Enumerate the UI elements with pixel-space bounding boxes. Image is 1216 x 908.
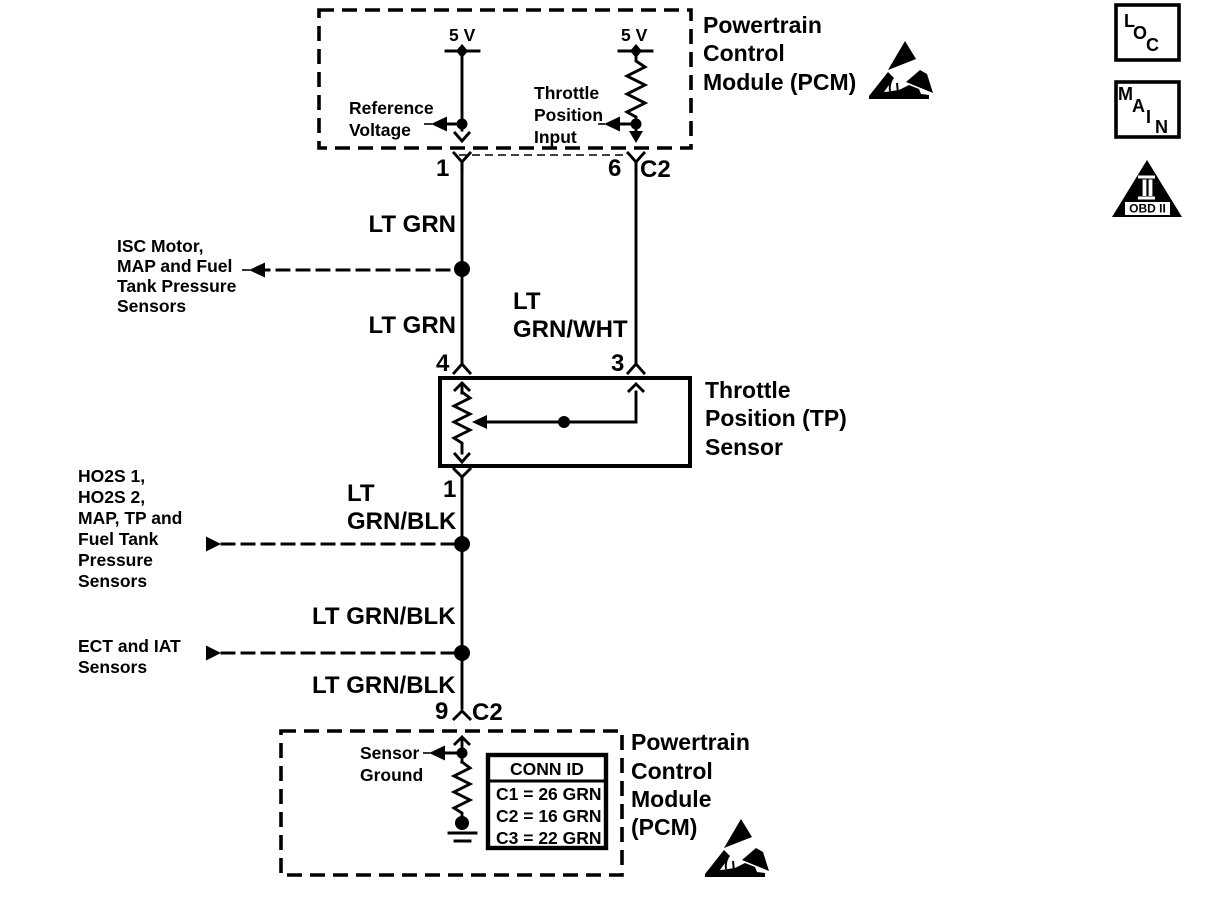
- wire: pin1 down to TP sensor: [461, 162, 464, 362]
- ground symbol: [449, 832, 476, 835]
- arrowhead ECT: [206, 646, 221, 661]
- resistor R (TP input pull-up): [627, 51, 645, 132]
- svg-text:M: M: [1118, 84, 1133, 104]
- svg-text:I: I: [1146, 107, 1151, 127]
- 5V rail right: [619, 50, 652, 53]
- svg-text:Sensors: Sensors: [78, 571, 147, 591]
- svg-text:1: 1: [436, 155, 449, 182]
- connector socket pin 1: [454, 153, 470, 172]
- svg-text:(PCM): (PCM): [631, 814, 697, 840]
- arrow down inside TP (to pin1): [455, 454, 469, 462]
- wire: left 5V to junction: [461, 51, 464, 130]
- svg-text:C1 = 26 GRN: C1 = 26 GRN: [496, 784, 602, 804]
- node: ECT splice: [454, 645, 470, 661]
- svg-text:LT: LT: [347, 480, 375, 507]
- CONN ID table: [488, 755, 606, 848]
- svg-text:ECT and IAT: ECT and IAT: [78, 636, 181, 656]
- svg-text:C: C: [1146, 35, 1159, 55]
- svg-text:Fuel Tank: Fuel Tank: [78, 529, 159, 549]
- svg-text:6: 6: [608, 155, 621, 182]
- wire: pin6 down to TP sensor: [635, 162, 638, 362]
- svg-text:Powertrain: Powertrain: [631, 729, 750, 755]
- node: wiper dot: [558, 416, 570, 428]
- arrow up inside TP (pin4): [455, 383, 469, 393]
- PCM dashed box (top): [319, 10, 691, 148]
- PCM dashed box (bottom): [281, 731, 622, 875]
- dashed wire to ECT and IAT: [222, 652, 453, 655]
- svg-text:HO2S 1,: HO2S 1,: [78, 466, 145, 486]
- svg-text:Module (PCM): Module (PCM): [703, 69, 856, 95]
- svg-text:MAP and Fuel: MAP and Fuel: [117, 256, 232, 276]
- svg-text:GRN/WHT: GRN/WHT: [513, 316, 628, 343]
- node: sensor ground junction: [457, 748, 468, 759]
- svg-text:OBD II: OBD II: [1129, 202, 1166, 216]
- svg-text:5 V: 5 V: [621, 25, 648, 45]
- svg-text:MAP, TP and: MAP, TP and: [78, 508, 182, 528]
- svg-text:LT GRN: LT GRN: [368, 211, 456, 238]
- svg-text:Control: Control: [631, 758, 713, 784]
- node: ground dot: [455, 816, 469, 830]
- svg-text:Powertrain: Powertrain: [703, 12, 822, 38]
- svg-text:Ground: Ground: [360, 765, 423, 785]
- svg-text:C2: C2: [640, 156, 671, 183]
- LOC page reference box: [1116, 5, 1179, 60]
- svg-text:C3 = 22 GRN: C3 = 22 GRN: [496, 828, 602, 848]
- svg-text:ISC Motor,: ISC Motor,: [117, 236, 204, 256]
- svg-text:A: A: [1132, 96, 1145, 116]
- svg-text:Throttle: Throttle: [534, 83, 599, 103]
- svg-text:C2: C2: [472, 699, 503, 726]
- svg-text:GRN/BLK: GRN/BLK: [347, 508, 457, 535]
- connector pin 9 chevron: [454, 711, 470, 719]
- arrow up inside PCM (pin9): [455, 737, 469, 762]
- arrowhead to ISC: [249, 263, 265, 278]
- open arrowhead down (pin 1 exit): [455, 133, 469, 141]
- svg-text:LT GRN: LT GRN: [368, 312, 456, 339]
- ESD symbol (top PCM): [869, 41, 933, 99]
- svg-text:Input: Input: [534, 127, 577, 147]
- svg-text:Voltage: Voltage: [349, 120, 411, 140]
- MAIN page reference box: [1116, 82, 1179, 137]
- svg-text:LT: LT: [513, 288, 541, 315]
- svg-text:O: O: [1133, 23, 1147, 43]
- svg-text:3: 3: [611, 350, 624, 377]
- svg-text:N: N: [1155, 117, 1168, 137]
- Throttle Position (TP) Sensor box: [440, 378, 690, 466]
- connector socket below TP sensor (pin 1): [454, 469, 470, 488]
- OBD II triangle badge: [1112, 160, 1182, 217]
- arrowhead Sensor Ground: [429, 746, 445, 761]
- svg-text:Sensor: Sensor: [360, 743, 420, 763]
- 5V rail left tap diamond: [456, 44, 468, 58]
- svg-text:5 V: 5 V: [449, 25, 476, 45]
- svg-text:Tank Pressure: Tank Pressure: [117, 276, 237, 296]
- svg-text:4: 4: [436, 350, 450, 377]
- svg-text:Sensors: Sensors: [117, 296, 186, 316]
- svg-text:Pressure: Pressure: [78, 550, 153, 570]
- dashed wire to HO2S etc: [222, 543, 453, 546]
- svg-text:LT GRN/BLK: LT GRN/BLK: [312, 603, 456, 630]
- arrow to Reference Voltage: [431, 117, 447, 132]
- node: HO2S splice: [454, 536, 470, 552]
- svg-text:HO2S 2,: HO2S 2,: [78, 487, 145, 507]
- dashed wire to ISC Motor etc: [257, 269, 453, 272]
- svg-text:Reference: Reference: [349, 98, 434, 118]
- node: reference voltage junction: [457, 119, 468, 130]
- potentiometer resistor: [454, 392, 470, 453]
- svg-text:Module: Module: [631, 786, 712, 812]
- connector pin 4 chevron: [454, 364, 470, 373]
- arrowhead HO2S: [206, 537, 221, 552]
- resistor to ground: [454, 762, 470, 818]
- 5V rail right tap diamond: [630, 44, 642, 58]
- connector pin 3 chevron: [628, 364, 644, 373]
- svg-text:CONN ID: CONN ID: [510, 759, 584, 779]
- svg-text:LT GRN/BLK: LT GRN/BLK: [312, 672, 456, 699]
- connector socket pin 6: [628, 153, 644, 172]
- CONN ID header separator: [490, 780, 604, 783]
- svg-text:Control: Control: [703, 40, 785, 66]
- svg-text:C2 = 16 GRN: C2 = 16 GRN: [496, 806, 602, 826]
- filled arrowhead down (pin 6 exit): [629, 131, 643, 143]
- svg-text:1: 1: [443, 476, 456, 503]
- svg-text:Position: Position: [534, 105, 603, 125]
- wire: TP pin1 down to PCM pin9: [461, 477, 464, 708]
- wire: junction to left arrow: [620, 123, 636, 126]
- node: ISC splice: [454, 261, 470, 277]
- arrow up inside TP (pin3): [629, 384, 643, 391]
- wiper arrow: [484, 392, 636, 422]
- svg-text:Position (TP): Position (TP): [705, 405, 847, 431]
- wire: junction to left arrow: [446, 123, 462, 126]
- 5V rail left: [446, 50, 479, 53]
- svg-text:9: 9: [435, 698, 448, 725]
- arrow to Throttle Position Input: [604, 117, 620, 132]
- ESD symbol (bottom PCM): [705, 819, 769, 877]
- svg-text:Sensor: Sensor: [705, 434, 783, 460]
- svg-text:Sensors: Sensors: [78, 657, 147, 677]
- C2 connector dashed line (top): [459, 154, 623, 156]
- svg-text:Throttle: Throttle: [705, 377, 791, 403]
- wire: junction to sensor ground arrow: [445, 752, 462, 755]
- node: throttle position input junction: [631, 119, 642, 130]
